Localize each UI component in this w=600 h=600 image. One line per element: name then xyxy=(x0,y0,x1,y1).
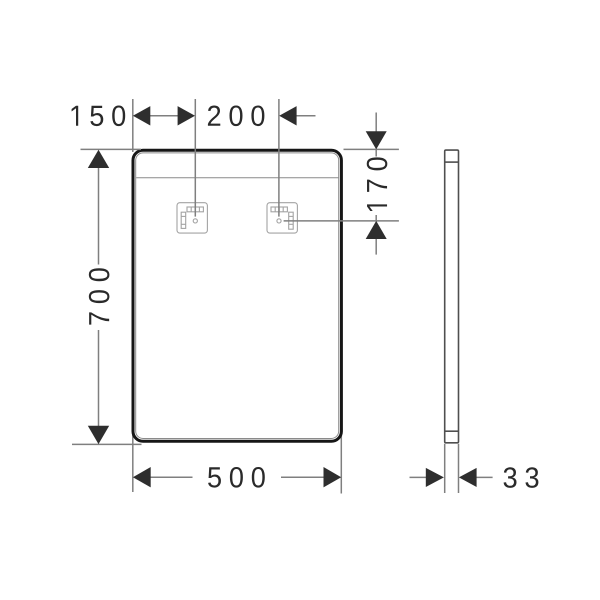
label 150 xyxy=(72,105,126,126)
170 bottom arrow (points up) xyxy=(366,221,387,239)
arrowheads xyxy=(88,106,477,487)
mounting plate 2 xyxy=(267,203,297,233)
ext line mount 2 xyxy=(278,99,280,217)
dim line 150 xyxy=(150,115,178,117)
170 bottom ext xyxy=(284,220,399,222)
500 dim left extension xyxy=(132,431,134,493)
mirror glass top line xyxy=(136,177,339,179)
label 500 xyxy=(208,467,265,488)
side view outline xyxy=(445,150,459,443)
dim tail 200 right xyxy=(296,115,315,117)
700 bottom ext xyxy=(72,443,142,445)
150 right arrow xyxy=(178,106,195,125)
33 right arrow (points left) xyxy=(459,468,477,487)
extension lines behind mirror xyxy=(133,99,341,494)
500 dim right extension xyxy=(340,431,342,494)
mirror front view outer outline xyxy=(133,150,341,441)
mounting plate 1 xyxy=(177,203,207,233)
33 ext lines xyxy=(444,444,446,493)
extension and dimension lines xyxy=(72,99,493,493)
label 200 xyxy=(208,105,264,126)
mirror front view inner line xyxy=(136,153,339,439)
200 right arrow xyxy=(279,106,296,125)
700 top arrow xyxy=(88,150,109,168)
170 top arrow (points down) xyxy=(366,131,387,149)
500 left arrow xyxy=(133,467,151,487)
ext line mount 1 xyxy=(194,99,196,217)
label 33 xyxy=(504,467,539,488)
33 tails xyxy=(410,476,427,478)
33 left arrow (points right) xyxy=(426,468,444,487)
170 top ext xyxy=(344,148,399,150)
700 top ext xyxy=(81,148,142,150)
500 right arrow xyxy=(324,467,342,487)
150 left arrow xyxy=(133,106,150,125)
700 dim line segments xyxy=(98,168,100,265)
170 dim tails xyxy=(375,113,377,133)
label 170 (rotated) xyxy=(367,157,388,211)
label 700 (rotated) xyxy=(89,268,110,324)
ext line mirror left edge (150 dim) xyxy=(132,99,134,152)
500 dim segments xyxy=(151,476,193,478)
700 bottom arrow xyxy=(88,426,109,444)
